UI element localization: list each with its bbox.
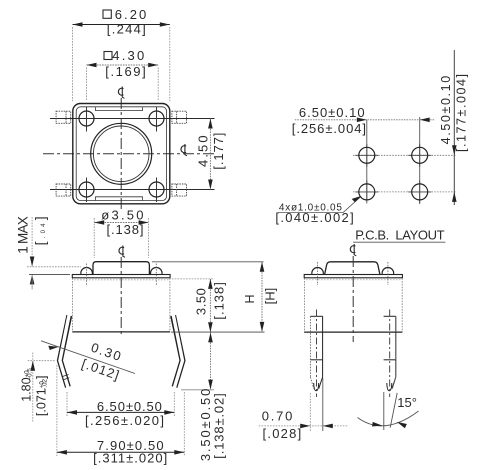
svg-text:3.50: 3.50: [193, 288, 208, 315]
svg-text:0.70: 0.70: [262, 409, 293, 424]
svg-text:P.C.B. LAYOUT: P.C.B. LAYOUT: [355, 227, 444, 242]
svg-text:[.244]: [.244]: [107, 22, 146, 37]
svg-text:1 MAX: 1 MAX: [15, 216, 30, 254]
svg-text:6.50±0.50: 6.50±0.50: [97, 399, 162, 414]
svg-text:[.138]: [.138]: [107, 222, 144, 237]
svg-text:H: H: [243, 294, 257, 303]
svg-text:[.177]: [.177]: [211, 133, 226, 170]
svg-text:[.040±.002]: [.040±.002]: [275, 210, 353, 225]
svg-text:[.028]: [.028]: [263, 426, 302, 441]
svg-text:[.138±.02]: [.138±.02]: [212, 393, 227, 459]
svg-text:ø3.50: ø3.50: [101, 208, 143, 223]
svg-text:[.138]: [.138]: [211, 282, 226, 320]
svg-text:[.256±.020]: [.256±.020]: [85, 413, 164, 428]
svg-text:[H]: [H]: [263, 288, 278, 305]
svg-text:[.177±.004]: [.177±.004]: [454, 74, 468, 152]
svg-text:1.80+0-0.5: 1.80+0-0.5: [19, 368, 33, 402]
svg-text:[.311±.020]: [.311±.020]: [93, 451, 167, 466]
svg-text:[.169]: [.169]: [105, 64, 145, 79]
svg-text:6.20: 6.20: [115, 7, 146, 22]
svg-text:4.30: 4.30: [112, 48, 144, 63]
svg-text:6.50±0.10: 6.50±0.10: [299, 105, 365, 120]
svg-text:[.071+0-.02]: [.071+0-.02]: [35, 376, 49, 417]
svg-text:4.50: 4.50: [195, 135, 210, 167]
svg-text:[.256±.004]: [.256±.004]: [292, 121, 366, 136]
svg-text:15°: 15°: [397, 395, 417, 410]
svg-text:[.04]: [.04]: [32, 216, 48, 245]
svg-text:4.50±0.10: 4.50±0.10: [439, 76, 453, 145]
